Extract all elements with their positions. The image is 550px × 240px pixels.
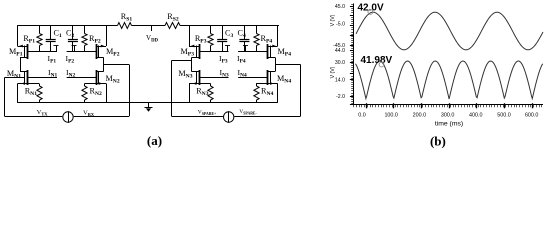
current probe stub	[245, 46, 247, 52]
wire drain feedback right	[275, 64, 300, 66]
capacitor C2	[72, 25, 74, 39]
svg-text:V (V): V (V)	[330, 66, 336, 78]
svg-text:100.0: 100.0	[384, 113, 398, 119]
node VDD stub	[151, 25, 153, 31]
wire node N-right	[67, 77, 97, 79]
resistor RP3	[210, 25, 212, 33]
svg-text:200.0: 200.0	[413, 113, 427, 119]
wire ground rail	[18, 102, 278, 104]
wire drain feedback right	[104, 64, 129, 66]
svg-text:500.0: 500.0	[497, 113, 511, 119]
svg-text:42.0V: 42.0V	[358, 2, 384, 13]
resistor RS1	[118, 23, 132, 29]
resistor RP1	[39, 25, 41, 33]
ground	[148, 103, 150, 107]
wire left supply column	[189, 25, 191, 46]
svg-text:45.0: 45.0	[335, 4, 345, 10]
bottom waveform rectified	[356, 61, 543, 99]
transistor MN1	[27, 70, 29, 85]
wire right supply column	[106, 25, 108, 46]
svg-text:-2.0: -2.0	[336, 94, 345, 100]
wire right supply column	[277, 25, 279, 46]
wire node P-right	[238, 51, 268, 53]
transistor MN2	[96, 70, 98, 85]
svg-text:(b): (b)	[430, 133, 446, 148]
resistor RN1	[39, 84, 41, 87]
resistor RN4	[256, 84, 258, 87]
wire node N-left	[199, 77, 229, 79]
resistor RN3	[210, 84, 212, 87]
svg-text:300.0: 300.0	[441, 113, 455, 119]
resistor RP4	[256, 25, 258, 33]
wire node P-right	[67, 51, 97, 53]
transistor MP4	[267, 44, 269, 59]
transistor MP2	[96, 44, 98, 59]
resistor RN2	[84, 84, 86, 87]
svg-text:V (V): V (V)	[330, 14, 336, 26]
top plot y-axis	[353, 4, 355, 50]
svg-text:30.0: 30.0	[335, 60, 345, 66]
current probe stub	[56, 46, 58, 52]
wire bottom loop right cell	[172, 116, 223, 118]
wire node N-left	[28, 77, 58, 79]
wire top supply rail	[18, 25, 118, 27]
svg-text:(a): (a)	[147, 133, 162, 148]
top waveform 42V sine	[356, 12, 543, 50]
source VSPARE	[224, 112, 234, 122]
svg-text:44.0: 44.0	[335, 48, 345, 54]
svg-text:41.98V: 41.98V	[361, 55, 393, 66]
wire node P-left	[28, 51, 58, 53]
wire bottom loop left cell	[5, 116, 63, 118]
transistor MN3	[199, 70, 201, 85]
wire drain feedback left	[172, 60, 192, 62]
top annotation marker	[368, 10, 373, 15]
capacitor C4	[244, 25, 246, 39]
resistor RP2	[84, 25, 86, 33]
bottom plot x-axis	[354, 104, 544, 106]
current probe stub	[74, 46, 76, 52]
wire gate feedback left	[5, 77, 25, 79]
svg-text:14.0: 14.0	[335, 78, 345, 84]
capacitor C3	[222, 25, 224, 39]
current probe stub	[227, 46, 229, 52]
svg-text:0.0: 0.0	[358, 113, 366, 119]
wire node P-left	[199, 51, 229, 53]
bottom plot y-axis	[353, 48, 355, 105]
svg-text:time (ms): time (ms)	[435, 121, 463, 128]
capacitor C1	[50, 25, 52, 39]
svg-text:600.0: 600.0	[525, 113, 539, 119]
transistor MN4	[267, 70, 269, 85]
svg-text:400.0: 400.0	[469, 113, 483, 119]
transistor MP3	[199, 44, 201, 59]
source VTX-VRX	[63, 112, 73, 122]
wire node N-right	[238, 77, 268, 79]
bottom annotation marker	[379, 62, 384, 67]
transistor MP1	[27, 44, 29, 59]
resistor RS2	[165, 23, 180, 29]
wire left supply column	[17, 25, 19, 46]
svg-text:-5.0: -5.0	[336, 22, 345, 28]
